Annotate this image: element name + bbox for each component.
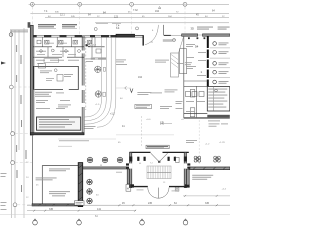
wing annotations (36, 169, 70, 197)
toilet fixtures (45, 40, 81, 52)
left rotated dim texts (17, 55, 27, 178)
interior dividers (184, 81, 208, 118)
thin approach line (171, 34, 182, 36)
svg-text:164: 164 (155, 10, 160, 13)
small title rows left (10, 30, 28, 33)
bottom right text block (192, 175, 213, 180)
svg-text:54: 54 (195, 45, 199, 49)
left exterior wall (30, 25, 33, 135)
left grid bubbles (9, 85, 16, 207)
top wall (182, 34, 198, 36)
table (38, 64, 45, 68)
garden facade dashed (85, 38, 87, 111)
svg-text:123: 123 (114, 16, 119, 19)
stair (147, 166, 171, 179)
top door (151, 153, 159, 162)
left edge flag (1, 62, 6, 65)
room box (34, 66, 79, 89)
corridor annotation texts (58, 105, 71, 108)
wall piers on top wall (33, 35, 116, 37)
dimension line lower right (183, 195, 230, 197)
svg-text:3D: 3D (191, 27, 194, 31)
vestibule exterior door marks (137, 189, 144, 192)
grid line extensions (14, 6, 186, 204)
interior wall row1 (33, 46, 104, 48)
leader texts right side (155, 40, 192, 109)
interior text annotations (35, 51, 96, 129)
left dimension lines (11, 28, 24, 218)
grid bubble letters (10, 3, 186, 207)
left margin tick texts (16, 45, 22, 192)
tree (95, 66, 102, 97)
symbols column (213, 42, 217, 84)
side wall gaps (129, 163, 133, 168)
svg-text:+1.29: +1.29 (219, 142, 225, 144)
left wing wall (127, 169, 129, 184)
texts below dark bar (209, 124, 229, 127)
right wing wall (187, 170, 190, 185)
thick hatched wall segment to entrance (116, 34, 135, 37)
fixtures (180, 49, 204, 117)
side walls (130, 152, 132, 187)
top dimension line 1 (29, 4, 229, 23)
top exterior wall (33, 34, 143, 36)
top-left notes (38, 24, 77, 27)
svg-text:164: 164 (138, 76, 143, 79)
H box (126, 184, 131, 191)
svg-text:+1.2: +1.2 (110, 113, 115, 116)
left edge marks (1, 173, 7, 177)
schedule table (207, 87, 230, 111)
annotation box row2 (44, 59, 59, 63)
building bottom wall (30, 133, 84, 135)
svg-text:7.32: 7.32 (133, 9, 138, 12)
label box (146, 145, 169, 148)
hatch ticks on right site wall (193, 167, 226, 169)
dark bar (207, 115, 230, 118)
bottom wall (130, 186, 190, 188)
right block room texts (186, 44, 206, 112)
corridor wall (82, 36, 84, 135)
fixture box right (176, 157, 179, 162)
texts left of right block (176, 60, 207, 109)
svg-text:245: 245 (148, 202, 153, 205)
top dim texts (44, 9, 215, 30)
grid bubble A (30, 2, 187, 6)
note box (37, 117, 81, 130)
main vertical wall (207, 36, 209, 86)
right flower trees (194, 156, 220, 162)
room dividers vertical (43, 37, 92, 57)
svg-text:H: H (127, 187, 129, 191)
piers (126, 157, 190, 188)
left boundary (183, 36, 185, 118)
right block extra lines (184, 113, 208, 115)
dimension texts top strip (48, 11, 225, 18)
svg-text:12.1: 12.1 (60, 13, 65, 16)
garden door tag (86, 44, 88, 46)
door tag squares on right block top wall (188, 37, 190, 39)
planter ramp (171, 53, 179, 77)
more room dividers (63, 37, 95, 57)
label box on lower wing bottom wall (75, 201, 85, 206)
tag circle (94, 28, 97, 31)
top wall (130, 151, 189, 153)
ticks on second bottom dim line (33, 210, 136, 212)
bottom wall of right block (184, 117, 230, 119)
room annotation texts (36, 23, 220, 143)
level marker (158, 7, 160, 9)
interior wall row2 (33, 56, 84, 58)
svg-text:345: 345 (205, 202, 210, 205)
bottom markers (33, 219, 188, 225)
double doors (148, 188, 159, 199)
fixtures: extra sanitary fixtures upper rooms (37, 40, 101, 53)
